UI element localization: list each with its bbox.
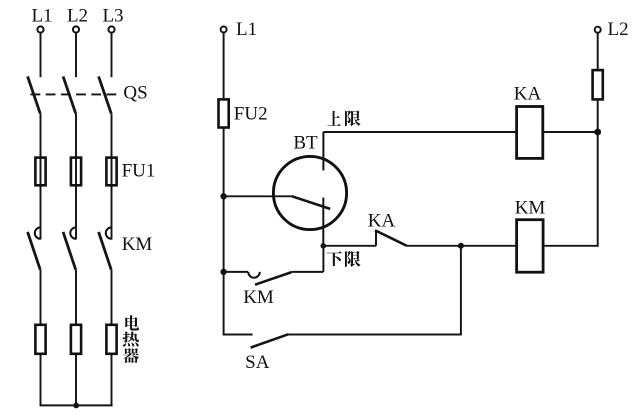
svg-text:L2: L2 xyxy=(608,19,629,40)
svg-text:KM: KM xyxy=(515,198,546,219)
svg-text:KA: KA xyxy=(514,84,542,105)
svg-text:L3: L3 xyxy=(102,6,123,27)
svg-text:KM: KM xyxy=(122,234,153,255)
svg-text:BT: BT xyxy=(293,132,318,153)
svg-text:KM: KM xyxy=(243,287,274,308)
svg-text:FU2: FU2 xyxy=(234,103,268,124)
svg-text:KA: KA xyxy=(368,211,396,232)
svg-text:FU1: FU1 xyxy=(122,161,156,182)
svg-text:L2: L2 xyxy=(67,6,88,27)
svg-text:L1: L1 xyxy=(236,19,257,40)
svg-text:L1: L1 xyxy=(31,6,52,27)
svg-text:QS: QS xyxy=(123,82,147,103)
svg-text:SA: SA xyxy=(245,352,270,373)
